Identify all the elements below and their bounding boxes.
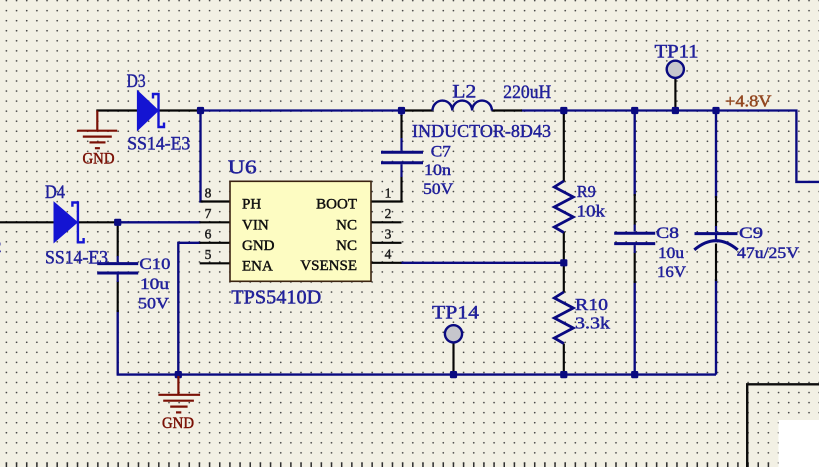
svg-text:GND: GND: [83, 151, 115, 168]
op-amp U6 body (TPS5410D regulator): [230, 181, 371, 281]
resistor R9: [554, 181, 573, 233]
pin D4 cathode lead (black): [78, 221, 117, 223]
capacitor C8: [614, 225, 655, 254]
svg-text:TP11: TP11: [655, 42, 699, 63]
pin D3 cathode lead (black): [159, 109, 201, 111]
pin U6 pin4 VSENSE stub: [371, 262, 402, 264]
wire pin8 riser from main net: [201, 111, 204, 202]
junction at TP14 on bus: [450, 371, 457, 378]
svg-text:GND: GND: [162, 415, 194, 432]
junction at TP11 on main net: [672, 107, 679, 114]
svg-text:R9: R9: [577, 182, 596, 201]
svg-text:+4.8V: +4.8V: [725, 92, 772, 111]
wire D4 output to VIN pin7: [117, 221, 201, 223]
pin D3 anode lead (black): [96, 109, 138, 111]
svg-text:5: 5: [205, 247, 212, 262]
svg-text:TP14: TP14: [432, 303, 480, 324]
svg-text:NC: NC: [336, 217, 357, 233]
pin TP14 stem: [452, 343, 454, 375]
svg-text:6: 6: [205, 227, 212, 242]
wire C9 riser from main net: [715, 111, 717, 199]
junction at C7 riser on main net: [398, 107, 405, 114]
pin C8 upper lead black section: [634, 194, 636, 225]
pin C10 upper lead black section: [117, 223, 119, 257]
pin U6 pin6 GND stub: [200, 242, 231, 244]
junction at C9 top on main net: [712, 107, 719, 114]
junction at C8 top on main net: [631, 107, 638, 114]
junction at C8 bottom on bus: [631, 371, 638, 378]
wire bottom GND bus: [117, 373, 716, 375]
svg-text:4: 4: [385, 247, 392, 262]
diode D4 (SS14-E3 schottky): [54, 202, 84, 242]
capacitor C10: [97, 256, 138, 282]
pin U6 pin3 NC stub: [371, 242, 402, 244]
svg-text:PH: PH: [242, 197, 261, 213]
pin TP11 stem: [674, 79, 676, 111]
svg-text:SS14-E3: SS14-E3: [127, 133, 190, 154]
svg-text:10u: 10u: [140, 276, 169, 293]
test point TP11: [667, 61, 684, 78]
wire VSENSE pin4 to divider tap: [401, 262, 565, 264]
svg-text:1: 1: [385, 185, 392, 200]
wire main output net segment inductor right to top-right corner: [521, 111, 819, 182]
wire C7 riser top stub: [400, 110, 402, 117]
svg-text:U6: U6: [228, 156, 257, 178]
svg-text:50V: 50V: [138, 296, 169, 313]
svg-text:C8: C8: [656, 225, 679, 242]
svg-text:10u: 10u: [658, 245, 684, 262]
svg-text:10n: 10n: [424, 162, 451, 179]
svg-text:16V: 16V: [657, 264, 686, 281]
test point TP14: [445, 325, 462, 342]
svg-text:7: 7: [205, 206, 212, 221]
pin C9 lower lead black section: [715, 244, 717, 282]
svg-text:C7: C7: [431, 144, 451, 161]
capacitor C9 (polarized): [694, 226, 737, 250]
pin R9 top lead black section: [563, 114, 565, 182]
junction at GND symbol on bus: [175, 371, 182, 378]
svg-text:D4: D4: [45, 182, 65, 203]
svg-text:10k: 10k: [577, 201, 606, 220]
pin R10 bottom lead black section: [563, 344, 565, 375]
wire C10 bottom to bus corner: [117, 310, 119, 375]
pin D4 anode lead from sheet edge (black): [0, 221, 54, 223]
svg-text:C9: C9: [739, 225, 763, 242]
svg-text:VIN: VIN: [242, 217, 269, 233]
ground GND top-left: [77, 111, 117, 149]
inductor L2: [433, 101, 492, 111]
svg-text:SS14-E3: SS14-E3: [45, 248, 108, 269]
title block corner (sheet border): [747, 384, 819, 467]
junction at VSENSE divider tap: [560, 259, 567, 266]
pin R9-R10 middle black section: [563, 232, 565, 293]
pin L2 left lead black section: [403, 109, 433, 111]
svg-text:2: 2: [0, 237, 2, 256]
diode D3 (SS14-E3 schottky): [137, 91, 164, 131]
svg-text:220uH: 220uH: [503, 82, 551, 103]
svg-text:8: 8: [205, 185, 212, 200]
pin U6 pin7 VIN stub: [200, 221, 231, 223]
pin U6 pin5 ENA stub (unconnected): [200, 262, 230, 264]
svg-text:3: 3: [385, 227, 392, 242]
svg-text:TPS5410D: TPS5410D: [231, 286, 321, 308]
svg-text:VSENSE: VSENSE: [300, 258, 357, 274]
title block white area: [779, 420, 819, 467]
svg-text:BOOT: BOOT: [316, 197, 357, 213]
pin C10 lower lead black section: [117, 281, 119, 312]
wire C9 bottom to bus corner: [715, 279, 717, 375]
svg-text:GND: GND: [242, 238, 275, 254]
svg-text:50V: 50V: [423, 181, 453, 198]
junction at D4 cathode / VIN / C10: [114, 219, 121, 226]
svg-text:ENA: ENA: [242, 258, 273, 274]
pin C7 lower lead black section down to BOOT pin: [400, 177, 402, 203]
junction at R10 bottom on bus: [560, 371, 567, 378]
pin C9 upper lead black section: [715, 196, 717, 227]
svg-text:L2: L2: [452, 82, 476, 103]
svg-text:3.3k: 3.3k: [575, 313, 611, 332]
wire C8 riser from main net: [634, 111, 636, 197]
pin C8 lower lead black section: [634, 252, 636, 283]
wire R9 top stub from main net: [563, 110, 565, 116]
svg-text:INDUCTOR-8D43: INDUCTOR-8D43: [412, 121, 551, 141]
junction at D3 cathode / pin8 riser: [197, 107, 204, 114]
svg-text:R10: R10: [575, 295, 608, 314]
pin U6 pin8 PH stub: [201, 200, 231, 202]
wire C8 bottom to bus: [634, 281, 636, 375]
ground GND bottom (under bus): [158, 376, 200, 412]
wire GND pin6 to bottom bus: [178, 243, 200, 375]
svg-text:2: 2: [385, 206, 392, 221]
capacitor C7: [381, 138, 423, 177]
svg-text:NC: NC: [336, 238, 357, 254]
svg-text:47u/25V: 47u/25V: [737, 245, 799, 262]
pin U6 pin1 BOOT stub: [371, 200, 403, 202]
junction at R9 top on main net: [560, 107, 567, 114]
pin L2 right lead black section: [492, 109, 523, 111]
pin U6 pin2 NC stub: [371, 221, 402, 223]
pin C7 upper lead black section: [400, 115, 402, 138]
wire main output net segment D3 junction to C7 riser: [200, 109, 403, 111]
svg-text:C10: C10: [139, 256, 170, 273]
resistor R10: [554, 292, 573, 344]
wire bottom sheet-edge grid ticks: [6, 463, 768, 467]
svg-text:D3: D3: [127, 71, 146, 92]
